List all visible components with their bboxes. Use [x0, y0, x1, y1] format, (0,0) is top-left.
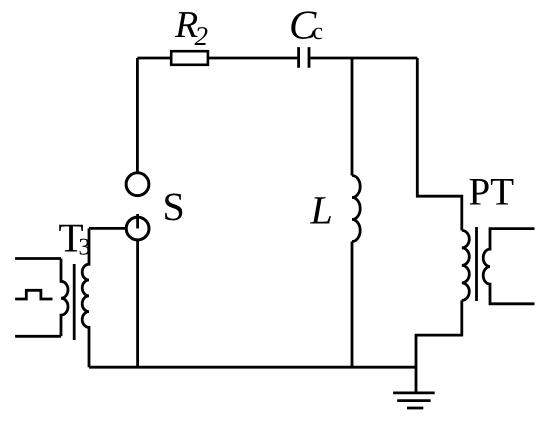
inductor L coil — [352, 176, 360, 242]
capacitor Cc — [299, 47, 309, 68]
wire from T3 secondary to S — [89, 227, 126, 230]
label T3 — [59, 225, 89, 255]
wire top rail left segment — [137, 57, 171, 60]
transformer T3 primary top wire — [15, 257, 61, 260]
spark gap S top sphere — [126, 173, 149, 196]
spark gap S bottom sphere — [126, 217, 149, 240]
transformer T3 primary coil — [61, 259, 68, 337]
wire L to bottom rail — [351, 242, 354, 368]
pulse source symbol — [15, 290, 52, 299]
transformer T3 secondary coil — [82, 228, 89, 367]
wire L branch from top rail — [351, 58, 354, 176]
wire below S to bottom rail — [136, 240, 139, 367]
transformer PT secondary coil — [483, 229, 534, 304]
transformer PT primary coil — [462, 230, 470, 300]
wire left branch down to spark gap — [136, 58, 139, 173]
wire top rail middle segment — [208, 57, 297, 60]
resistor R2 — [171, 51, 208, 65]
wire right branch from top rail to PT — [417, 58, 462, 230]
bottom rail — [89, 366, 416, 369]
transformer T3 core — [73, 264, 76, 340]
ground — [393, 393, 435, 408]
label Cc — [291, 11, 322, 39]
trigger electrode of S — [136, 214, 139, 228]
transformer PT core — [475, 227, 478, 301]
wire top rail right segment — [310, 57, 417, 60]
label L — [310, 197, 331, 223]
transformer T3 primary bottom wire — [15, 335, 61, 338]
label PT — [470, 179, 514, 205]
label R2 — [175, 12, 208, 45]
label S — [165, 194, 182, 221]
wire PT primary bottom to ground stem — [416, 300, 462, 392]
